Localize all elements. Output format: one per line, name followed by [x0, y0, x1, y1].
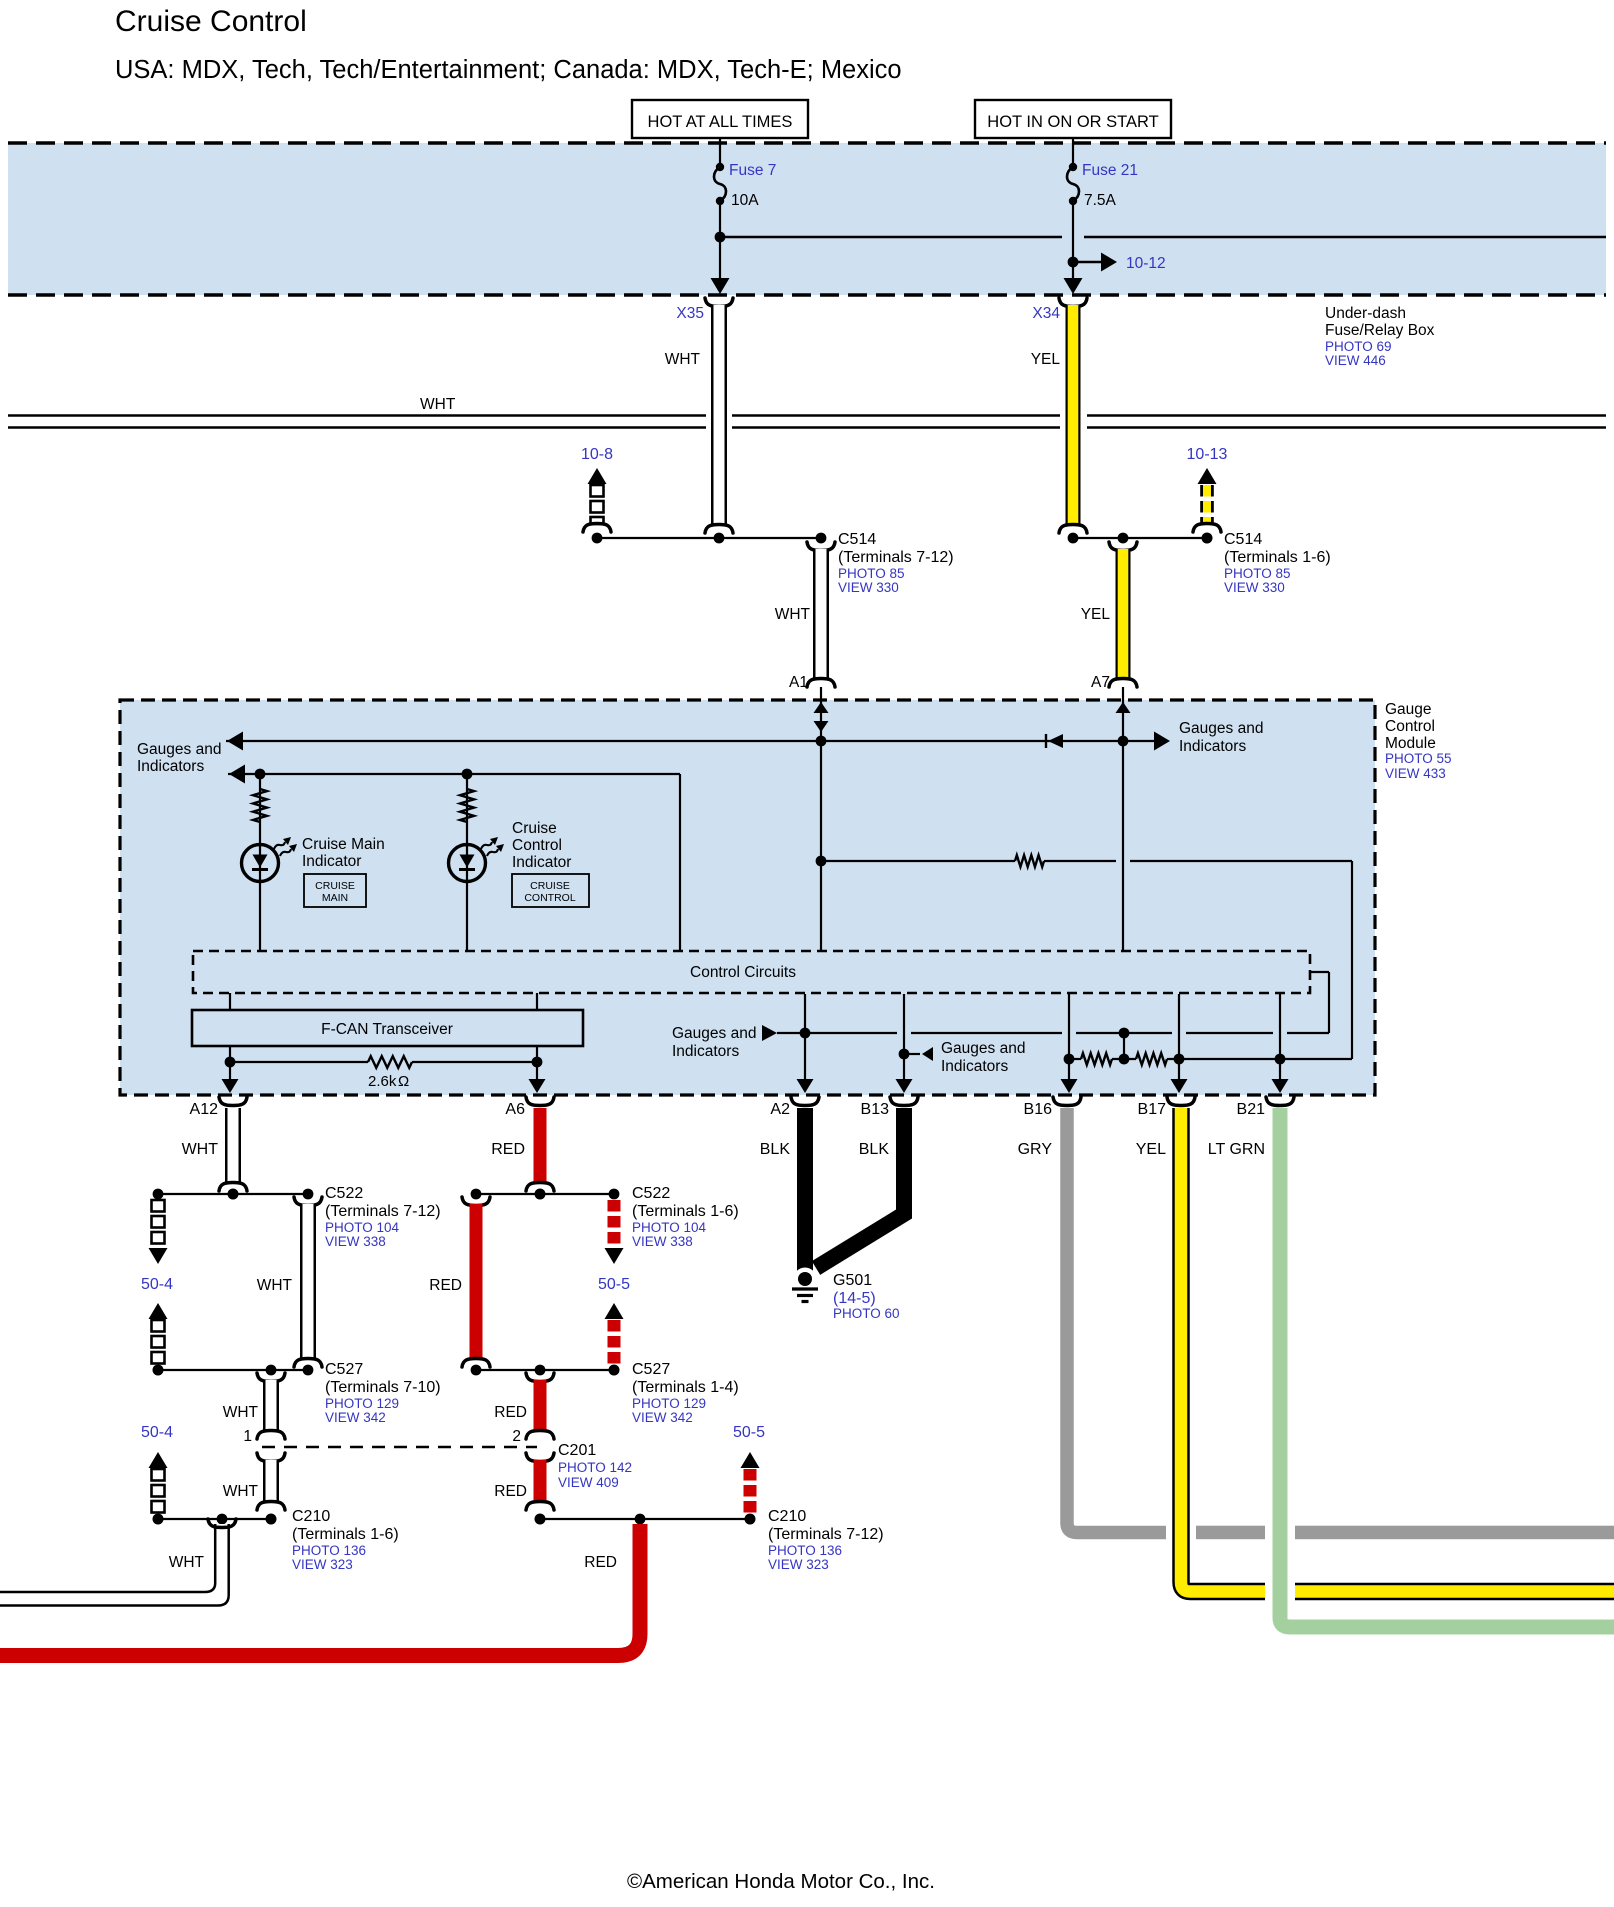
svg-text:50-5: 50-5 — [598, 1276, 630, 1293]
svg-text:USA: MDX, Tech, Tech/Entertain: USA: MDX, Tech, Tech/Entertainment; Cana… — [115, 56, 902, 84]
svg-text:X34: X34 — [1032, 305, 1060, 322]
svg-text:C514: C514 — [838, 531, 876, 548]
svg-text:VIEW 446: VIEW 446 — [1325, 353, 1386, 368]
svg-text:10-12: 10-12 — [1126, 255, 1166, 272]
svg-text:BLK: BLK — [859, 1141, 890, 1158]
svg-text:RED: RED — [491, 1141, 525, 1158]
svg-text:Indicator: Indicator — [512, 854, 571, 871]
svg-text:GRY: GRY — [1018, 1141, 1053, 1158]
svg-text:VIEW 338: VIEW 338 — [325, 1234, 386, 1249]
svg-text:HOT IN ON OR START: HOT IN ON OR START — [987, 113, 1158, 131]
svg-text:RED: RED — [429, 1277, 462, 1294]
svg-text:VIEW 323: VIEW 323 — [292, 1557, 353, 1572]
svg-text:PHOTO 104: PHOTO 104 — [325, 1220, 400, 1235]
svg-text:10-13: 10-13 — [1187, 446, 1228, 463]
svg-text:VIEW 330: VIEW 330 — [1224, 580, 1285, 595]
svg-text:(Terminals 7-10): (Terminals 7-10) — [325, 1379, 441, 1396]
svg-text:VIEW 323: VIEW 323 — [768, 1557, 829, 1572]
svg-text:B17: B17 — [1138, 1101, 1167, 1118]
svg-text:PHOTO 104: PHOTO 104 — [632, 1220, 707, 1235]
svg-text:Gauges and: Gauges and — [672, 1025, 756, 1042]
svg-text:F-CAN Transceiver: F-CAN Transceiver — [321, 1021, 453, 1038]
svg-text:7.5A: 7.5A — [1084, 192, 1117, 209]
svg-text:PHOTO 136: PHOTO 136 — [768, 1543, 842, 1558]
svg-text:B16: B16 — [1024, 1101, 1053, 1118]
svg-text:A1: A1 — [789, 674, 808, 691]
svg-text:C514: C514 — [1224, 531, 1262, 548]
svg-text:RED: RED — [584, 1554, 617, 1571]
svg-text:YEL: YEL — [1031, 351, 1061, 368]
svg-text:LT GRN: LT GRN — [1208, 1141, 1265, 1158]
svg-text:VIEW 330: VIEW 330 — [838, 580, 899, 595]
svg-text:WHT: WHT — [420, 396, 456, 413]
svg-text:©American Honda Motor Co., Inc: ©American Honda Motor Co., Inc. — [627, 1870, 935, 1893]
svg-text:Cruise: Cruise — [512, 820, 557, 837]
svg-text:VIEW 342: VIEW 342 — [632, 1410, 693, 1425]
svg-text:PHOTO 129: PHOTO 129 — [632, 1396, 706, 1411]
svg-text:Gauges and: Gauges and — [137, 741, 221, 758]
svg-text:PHOTO 129: PHOTO 129 — [325, 1396, 399, 1411]
svg-text:(Terminals 1-6): (Terminals 1-6) — [632, 1203, 739, 1220]
svg-text:WHT: WHT — [665, 351, 701, 368]
svg-text:50-4: 50-4 — [141, 1424, 173, 1441]
svg-text:Gauges and: Gauges and — [941, 1040, 1025, 1057]
svg-text:RED: RED — [494, 1483, 527, 1500]
svg-text:HOT AT ALL TIMES: HOT AT ALL TIMES — [648, 113, 793, 131]
svg-text:C527: C527 — [632, 1361, 670, 1378]
svg-text:2.6k: 2.6k — [368, 1073, 397, 1090]
svg-text:PHOTO 69: PHOTO 69 — [1325, 339, 1392, 354]
svg-text:B13: B13 — [861, 1101, 890, 1118]
svg-text:C210: C210 — [292, 1508, 330, 1525]
svg-text:(Terminals 1-6): (Terminals 1-6) — [292, 1526, 399, 1543]
svg-text:WHT: WHT — [223, 1483, 259, 1500]
svg-text:50-5: 50-5 — [733, 1424, 765, 1441]
svg-text:Indicators: Indicators — [672, 1043, 739, 1060]
svg-text:C201: C201 — [558, 1442, 596, 1459]
svg-text:PHOTO 85: PHOTO 85 — [838, 566, 905, 581]
svg-text:WHT: WHT — [182, 1141, 219, 1158]
svg-text:RED: RED — [494, 1404, 527, 1421]
svg-text:Module: Module — [1385, 735, 1436, 752]
svg-text:Under-dash: Under-dash — [1325, 305, 1406, 322]
svg-text:10-8: 10-8 — [581, 446, 613, 463]
svg-text:PHOTO 142: PHOTO 142 — [558, 1460, 632, 1475]
svg-text:Control: Control — [1385, 718, 1435, 735]
svg-text:Gauge: Gauge — [1385, 701, 1432, 718]
svg-text:VIEW 433: VIEW 433 — [1385, 766, 1446, 781]
svg-text:Gauges and: Gauges and — [1179, 720, 1263, 737]
svg-text:Indicators: Indicators — [1179, 738, 1246, 755]
svg-text:A2: A2 — [770, 1101, 790, 1118]
svg-text:10A: 10A — [731, 192, 759, 209]
svg-text:(Terminals 7-12): (Terminals 7-12) — [325, 1203, 441, 1220]
svg-text:X35: X35 — [676, 305, 704, 322]
svg-text:(14-5): (14-5) — [833, 1290, 876, 1307]
svg-text:CRUISE: CRUISE — [315, 880, 355, 892]
svg-text:(Terminals 7-12): (Terminals 7-12) — [838, 549, 954, 566]
svg-text:VIEW 338: VIEW 338 — [632, 1234, 693, 1249]
svg-text:PHOTO 136: PHOTO 136 — [292, 1543, 366, 1558]
svg-text:50-4: 50-4 — [141, 1276, 173, 1293]
svg-text:A12: A12 — [190, 1101, 219, 1118]
svg-text:VIEW 342: VIEW 342 — [325, 1410, 386, 1425]
svg-text:(Terminals 1-6): (Terminals 1-6) — [1224, 549, 1331, 566]
svg-text:Cruise Main: Cruise Main — [302, 836, 385, 853]
svg-text:Indicator: Indicator — [302, 853, 361, 870]
svg-text:2: 2 — [512, 1428, 521, 1445]
svg-text:Control: Control — [512, 837, 562, 854]
svg-text:1: 1 — [243, 1428, 252, 1445]
svg-text:WHT: WHT — [257, 1277, 293, 1294]
svg-text:A6: A6 — [505, 1101, 525, 1118]
svg-text:PHOTO 55: PHOTO 55 — [1385, 751, 1452, 766]
svg-text:BLK: BLK — [760, 1141, 791, 1158]
svg-text:Fuse 21: Fuse 21 — [1082, 162, 1138, 179]
svg-text:PHOTO 60: PHOTO 60 — [833, 1306, 900, 1321]
svg-text:WHT: WHT — [169, 1554, 205, 1571]
svg-text:CONTROL: CONTROL — [524, 892, 575, 904]
svg-text:C522: C522 — [325, 1185, 363, 1202]
svg-text:VIEW 409: VIEW 409 — [558, 1475, 619, 1490]
svg-text:Indicators: Indicators — [941, 1058, 1008, 1075]
svg-text:G501: G501 — [833, 1272, 872, 1289]
svg-text:Indicators: Indicators — [137, 758, 204, 775]
svg-text:YEL: YEL — [1081, 606, 1111, 623]
svg-text:WHT: WHT — [775, 606, 811, 623]
svg-text:YEL: YEL — [1136, 1141, 1166, 1158]
svg-text:C210: C210 — [768, 1508, 806, 1525]
svg-text:(Terminals 7-12): (Terminals 7-12) — [768, 1526, 884, 1543]
svg-text:C527: C527 — [325, 1361, 363, 1378]
svg-text:B21: B21 — [1237, 1101, 1266, 1118]
svg-text:PHOTO 85: PHOTO 85 — [1224, 566, 1291, 581]
svg-text:WHT: WHT — [223, 1404, 259, 1421]
svg-text:Control Circuits: Control Circuits — [690, 964, 796, 981]
svg-text:Fuse 7: Fuse 7 — [729, 162, 776, 179]
svg-text:Fuse/Relay Box: Fuse/Relay Box — [1325, 322, 1435, 339]
svg-text:Cruise Control: Cruise Control — [115, 5, 307, 38]
svg-text:A7: A7 — [1091, 674, 1110, 691]
svg-text:(Terminals 1-4): (Terminals 1-4) — [632, 1379, 739, 1396]
svg-text:CRUISE: CRUISE — [530, 880, 570, 892]
svg-text:Ω: Ω — [398, 1073, 409, 1090]
svg-text:MAIN: MAIN — [322, 892, 348, 904]
svg-text:C522: C522 — [632, 1185, 670, 1202]
